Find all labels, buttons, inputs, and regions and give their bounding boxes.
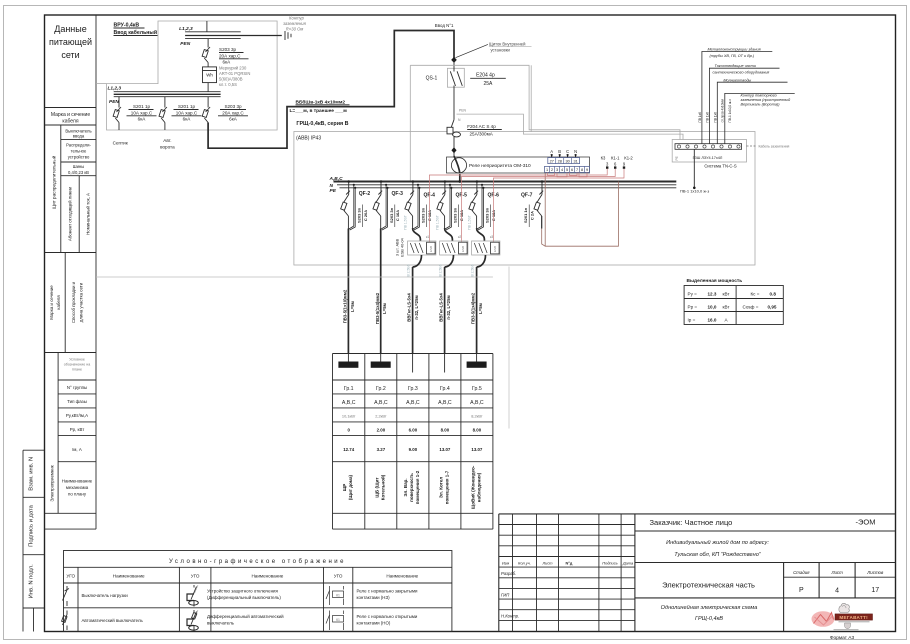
svg-text:Электроприемник: Электроприемник <box>50 465 55 501</box>
svg-text:N: N <box>574 149 577 154</box>
svg-text:Номинальный ток, А: Номинальный ток, А <box>86 193 91 235</box>
svg-text:Кол.уч.: Кол.уч. <box>518 561 531 566</box>
svg-text:помещения 1-7: помещения 1-7 <box>444 470 449 504</box>
breaker QF-6 <box>469 180 499 230</box>
legend symbol: relay NO contact <box>326 611 418 631</box>
svg-text:по плану: по плану <box>68 492 87 497</box>
svg-text:ESB: ESB <box>461 246 465 252</box>
svg-text:ЩР: ЩР <box>342 484 347 492</box>
svg-text:10А хар.С: 10А хар.С <box>176 110 198 115</box>
table row: load names (rotated) <box>342 465 481 509</box>
svg-text:Меркурий 230: Меркурий 230 <box>219 66 247 71</box>
svg-text:Марка и сечение: Марка и сечение <box>51 112 90 118</box>
allotted power table <box>684 278 783 325</box>
contactor K1 (3 шт. АВВ ESB 40-04) <box>396 215 436 276</box>
svg-text:ПВ 1х6: ПВ 1х6 <box>706 112 710 123</box>
svg-text:R<30 Ом: R<30 Ом <box>286 27 304 32</box>
svg-text:С 20А: С 20А <box>363 210 368 221</box>
terminal strip A B C N (27 28 30 31) <box>548 149 580 164</box>
svg-text:8,2кВт: 8,2кВт <box>471 414 483 419</box>
svg-text:N° группы: N° группы <box>67 385 87 390</box>
svg-text:Iм, А: Iм, А <box>72 447 82 452</box>
svg-text:S203 3п: S203 3п <box>485 207 490 223</box>
svg-text:Токоотводящие части: Токоотводящие части <box>715 64 757 68</box>
svg-text:L=5м: L=5м <box>478 303 483 314</box>
svg-text:17: 17 <box>871 587 879 594</box>
svg-text:PE: PE <box>330 188 337 194</box>
svg-text:Лист: Лист <box>830 570 843 575</box>
svg-text:А,В,С: А,В,С <box>406 400 420 406</box>
outgoing cable Гр.3 <box>407 267 419 354</box>
svg-text:QF-7: QF-7 <box>521 193 533 199</box>
svg-text:Эл. Котел: Эл. Котел <box>438 477 443 499</box>
svg-text:ПВ3-5(1х4)мм2: ПВ3-5(1х4)мм2 <box>471 292 476 324</box>
svg-text:25А: 25А <box>484 81 494 87</box>
svg-text:ВВГнг-LS-5х4: ВВГнг-LS-5х4 <box>407 293 412 322</box>
relay ОМ-310 box <box>447 156 590 182</box>
breaker QF-7 <box>521 180 543 228</box>
svg-text:6кА: 6кА <box>138 117 147 122</box>
svg-text:кабеля: кабеля <box>62 119 78 125</box>
svg-text:20А хар.С: 20А хар.С <box>222 110 244 115</box>
svg-text:ПВ 1,5SТ: ПВ 1,5SТ <box>468 215 472 230</box>
wire QF-7 to relay coils loop <box>542 173 619 247</box>
svg-text:Взам. инв. N: Взам. инв. N <box>28 457 34 491</box>
logo МЕГАВАТТ <box>812 603 873 629</box>
svg-text:Подпись: Подпись <box>602 561 617 566</box>
red control wiring <box>429 169 624 242</box>
svg-text:Металлоконструкции здания: Металлоконструкции здания <box>708 48 761 52</box>
legend symbol: diff automatic breaker <box>187 610 284 631</box>
svg-text:5(60)А/380В: 5(60)А/380В <box>219 77 243 82</box>
svg-text:8.00: 8.00 <box>473 428 482 433</box>
switch QS-1 E204 <box>426 60 506 120</box>
svg-text:0,4/0,23 кВ: 0,4/0,23 кВ <box>68 170 89 175</box>
svg-text:Дата: Дата <box>622 561 634 566</box>
svg-text:F204 AC S 4р: F204 AC S 4р <box>467 124 496 129</box>
svg-text:6.00: 6.00 <box>409 428 418 433</box>
svg-text:Ввод кабельный: Ввод кабельный <box>114 29 158 36</box>
junction node <box>451 57 457 63</box>
svg-text:(Щит дома): (Щит дома) <box>348 474 353 500</box>
svg-text:Изм: Изм <box>502 561 510 566</box>
svg-text:30: 30 <box>565 159 569 163</box>
svg-text:поверхность: поверхность <box>409 473 414 502</box>
svg-text:ART-01 PQRSIN: ART-01 PQRSIN <box>219 71 250 76</box>
svg-text:кВт: кВт <box>723 291 731 296</box>
svg-text:Ру,кВт/Iм,А: Ру,кВт/Iм,А <box>66 413 88 418</box>
svg-text:В: В <box>558 149 561 154</box>
terminal strip 1-9 <box>545 166 590 172</box>
svg-text:31: 31 <box>573 159 577 163</box>
svg-text:ГРЩ-0,4кВ, серия В: ГРЩ-0,4кВ, серия В <box>296 121 348 127</box>
bonding labels <box>680 48 791 194</box>
gray N/PE routing wires <box>410 65 683 181</box>
svg-text:0,95: 0,95 <box>768 304 777 309</box>
legend table УГО <box>64 551 452 632</box>
svg-text:Кабель заземления: Кабель заземления <box>759 145 790 149</box>
svg-text:плане: плане <box>72 368 82 372</box>
main bus A,B,C / N / PE <box>329 176 696 194</box>
svg-text:Распредели-: Распредели- <box>66 143 91 148</box>
svg-text:сети: сети <box>61 50 79 60</box>
svg-text:Ру =: Ру = <box>688 291 698 296</box>
svg-text:16.0: 16.0 <box>708 317 717 322</box>
svg-text:5: 5 <box>566 168 568 172</box>
svg-text:Гр.3: Гр.3 <box>408 386 418 392</box>
svg-text:заземления: заземления <box>282 21 307 26</box>
leader кабель заземления <box>747 145 790 149</box>
svg-text:(Дифференциальный выключатель): (Дифференциальный выключатель) <box>207 595 281 600</box>
svg-text:Реле неприоритета ОМ-310: Реле неприоритета ОМ-310 <box>469 163 531 169</box>
svg-text:Наименование: Наименование <box>386 574 418 579</box>
junction node <box>451 147 456 153</box>
svg-text:к3: к3 <box>490 235 493 239</box>
svg-text:2: 2 <box>551 168 553 172</box>
svg-text:ГРЩ-0,4кВ: ГРЩ-0,4кВ <box>695 616 723 622</box>
svg-text:Кс =: Кс = <box>751 291 760 296</box>
svg-text:Септик: Септик <box>113 141 129 146</box>
svg-text:Молниеотводы: Молниеотводы <box>723 78 751 82</box>
misc reference lines <box>96 267 509 429</box>
sidebar rows: cable section <box>49 253 84 353</box>
svg-text:В 2,5Бб: В 2,5Бб <box>406 264 410 276</box>
label Ввод N1 <box>435 23 454 28</box>
svg-text:PEN: PEN <box>109 99 119 105</box>
svg-text:-ЭОМ: -ЭОМ <box>856 518 876 527</box>
svg-text:кВт: кВт <box>723 304 731 309</box>
svg-text:Эл. Вар.: Эл. Вар. <box>403 478 408 496</box>
svg-text:Заказчик: Частное лицо: Заказчик: Частное лицо <box>650 518 733 527</box>
svg-text:L1,2,3: L1,2,3 <box>179 26 193 32</box>
svg-text:1: 1 <box>546 168 548 172</box>
svg-text:Листов: Листов <box>866 570 884 575</box>
svg-text:РЕ: РЕ <box>675 156 679 160</box>
svg-text:Ввод N°1: Ввод N°1 <box>435 23 454 28</box>
legend symbol: RCD <box>187 585 281 607</box>
table row: Iм А <box>343 447 483 452</box>
contactor K2 <box>436 215 468 276</box>
svg-text:к1: к1 <box>426 235 429 239</box>
svg-text:ЩБ (Щит: ЩБ (Щит <box>374 477 379 498</box>
svg-text:8: 8 <box>581 168 583 172</box>
svg-text:Реле с нормально открытыми: Реле с нормально открытыми <box>357 614 418 619</box>
svg-text:Реле с нормально закрытыми: Реле с нормально закрытыми <box>357 589 419 594</box>
breaker S201 1p 10A (Септик) <box>113 97 157 146</box>
svg-text:помещения 1-2: помещения 1-2 <box>415 470 420 504</box>
svg-text:Индивидуальный жилой дом по ад: Индивидуальный жилой дом по адресу: <box>666 539 769 546</box>
svg-text:QF-3: QF-3 <box>392 191 404 197</box>
GRSHCH enclosure box <box>294 132 755 266</box>
svg-text:13.07: 13.07 <box>471 447 483 452</box>
svg-text:Автоматический выключатель: Автоматический выключатель <box>82 618 144 623</box>
sidebar rows: Щит распределительный block <box>51 125 97 253</box>
svg-text:Марка и сечение: Марка и сечение <box>49 285 54 320</box>
svg-text:Рр, кВт: Рр, кВт <box>70 427 85 432</box>
svg-text:Данные: Данные <box>54 24 87 34</box>
left stamp strip <box>23 450 45 631</box>
svg-text:Авт.: Авт. <box>163 138 171 143</box>
svg-text:п-32, L=25м: п-32, L=25м <box>446 295 451 319</box>
svg-text:сп.пров 4х10мм: сп.пров 4х10мм <box>721 99 725 122</box>
svg-text:S203 3п: S203 3п <box>421 207 426 223</box>
svg-text:(АВВ) IP43: (АВВ) IP43 <box>296 136 321 142</box>
breaker QF-5 <box>437 180 467 230</box>
svg-text:контактами (НО): контактами (НО) <box>357 621 391 626</box>
svg-text:ПВ 1х6: ПВ 1х6 <box>713 112 717 123</box>
svg-text:2.00: 2.00 <box>377 428 386 433</box>
outgoing cable Гр.1 <box>343 229 355 354</box>
svg-text:В 2,5Бб: В 2,5Бб <box>470 264 474 276</box>
svg-text:Е204 4р: Е204 4р <box>476 73 495 79</box>
svg-text:ESB: ESB <box>429 246 433 252</box>
svg-text:ВВГнг-LS-5х4: ВВГнг-LS-5х4 <box>439 293 444 322</box>
feeder cable wire VRU to GRSHCH <box>208 31 454 149</box>
outgoing cable Гр.2 <box>375 229 387 354</box>
svg-text:25А/300мА: 25А/300мА <box>470 131 494 136</box>
svg-text:устройство: устройство <box>68 155 90 160</box>
svg-text:К1-2: К1-2 <box>624 156 633 161</box>
svg-text:Стадия: Стадия <box>793 570 810 575</box>
svg-text:ЩоВиК (Жонвидео-: ЩоВиК (Жонвидео- <box>470 465 475 509</box>
svg-text:Тульская обл, КП “Рождествено”: Тульская обл, КП “Рождествено” <box>674 552 762 558</box>
svg-text:N: N <box>330 183 334 189</box>
svg-text:обозначение на: обозначение на <box>64 363 90 367</box>
svg-text:Формат А3: Формат А3 <box>830 635 855 641</box>
svg-text:ворота: ворота <box>160 145 175 150</box>
svg-text:(трубы ХВ, ГВ, ОТ и Вр.): (трубы ХВ, ГВ, ОТ и Вр.) <box>710 54 755 58</box>
svg-text:N°д: N°д <box>566 561 573 566</box>
svg-text:L=5м: L=5м <box>382 303 387 314</box>
svg-text:МЕГАВАТТ!: МЕГАВАТТ! <box>839 615 868 620</box>
svg-text:К3: К3 <box>601 156 606 161</box>
svg-text:тельное: тельное <box>71 149 87 154</box>
svg-text:3: 3 <box>556 168 558 172</box>
sheet format label <box>830 635 855 641</box>
svg-text:Наименование: Наименование <box>113 574 145 579</box>
cable label ВБбШв <box>290 99 350 115</box>
svg-text:9: 9 <box>586 168 588 172</box>
svg-text:6кА: 6кА <box>183 117 192 122</box>
svg-text:УГО: УГО <box>66 574 75 579</box>
svg-text:Н.Контр.: Н.Контр. <box>501 614 519 619</box>
svg-text:Абонент отходящей линии: Абонент отходящей линии <box>68 186 73 241</box>
svg-text:Устройство защитного отключени: Устройство защитного отключения <box>207 589 278 594</box>
svg-text:К1: К1 <box>336 593 340 597</box>
table row: Рр кВт <box>347 428 481 433</box>
VRU enclosure box <box>96 21 277 130</box>
svg-text:Наименование: Наименование <box>62 479 93 484</box>
svg-text:L=5м: L=5м <box>350 301 355 312</box>
svg-text:Гр.2: Гр.2 <box>376 386 386 392</box>
svg-text:Щиток Внутренней: Щиток Внутренней <box>489 42 526 47</box>
svg-text:В 2,5Бб: В 2,5Бб <box>438 264 442 276</box>
table row: installed power <box>342 414 483 419</box>
svg-text:УГО: УГО <box>191 574 200 579</box>
contactor K3 <box>468 215 500 276</box>
svg-text:Котельной): Котельной) <box>379 474 385 500</box>
svg-text:PEN: PEN <box>180 41 190 47</box>
svg-text:Wh: Wh <box>206 73 213 78</box>
svg-text:6: 6 <box>571 168 573 172</box>
svg-text:L=___м, в траншее ___м: L=___м, в траншее ___м <box>290 108 348 114</box>
svg-text:Cosф =: Cosф = <box>743 304 759 309</box>
svg-text:10,1кВт: 10,1кВт <box>342 414 356 419</box>
breaker S203 3p 20A (output to GRSHCH) <box>202 97 248 123</box>
svg-text:S203 3р: S203 3р <box>224 104 242 109</box>
svg-text:20А хар.С: 20А хар.С <box>219 53 241 58</box>
svg-text:27: 27 <box>550 159 554 163</box>
svg-text:к2: к2 <box>458 235 461 239</box>
VRU top busbar L1,2,3 / PEN <box>179 26 282 47</box>
svg-text:Выделенная мощность: Выделенная мощность <box>687 278 743 284</box>
svg-text:S203 3р: S203 3р <box>219 47 237 52</box>
sidebar rows: электроприемник block <box>50 353 97 514</box>
svg-text:Подпись и дата: Подпись и дата <box>28 504 34 546</box>
VRU cabinet label <box>114 23 158 37</box>
meter Wh Меркурий 230 <box>203 66 251 92</box>
svg-text:3 шт. АВВ: 3 шт. АВВ <box>396 238 400 256</box>
svg-text:ПВ3-5(1х4)мм2: ПВ3-5(1х4)мм2 <box>375 292 380 324</box>
svg-text:Условно-графическое отображени: Условно-графическое отображение <box>169 559 346 565</box>
svg-text:S201 1п: S201 1п <box>523 207 528 223</box>
breaker QF-2 <box>341 180 371 230</box>
svg-text:длина участка сети: длина участка сети <box>79 282 84 322</box>
svg-text:ПВ-1 1х10,0 ж-з: ПВ-1 1х10,0 ж-з <box>680 189 709 194</box>
RCD F204 <box>447 120 502 157</box>
svg-text:ПВ 1,5SТ: ПВ 1,5SТ <box>404 215 408 230</box>
svg-text:выключатель: выключатель <box>207 621 235 626</box>
svg-text:ESB 40-04: ESB 40-04 <box>400 238 404 256</box>
outgoing cable Гр.5 <box>471 267 483 354</box>
svg-text:Р: Р <box>799 587 804 594</box>
svg-text:7: 7 <box>576 168 578 172</box>
svg-text:Система ТN-C-S: Система ТN-C-S <box>704 164 736 169</box>
svg-text:кабеля: кабеля <box>56 295 61 310</box>
svg-text:ПВ3-5(1х10)мм2: ПВ3-5(1х10)мм2 <box>343 289 348 323</box>
legend symbol: relay NC contact <box>326 586 418 605</box>
breaker QF-4 <box>405 180 435 230</box>
svg-text:6кА: 6кА <box>229 117 238 122</box>
svg-text:Однолинейная электрическая схе: Однолинейная электрическая схема <box>661 604 758 611</box>
svg-text:QS-1: QS-1 <box>426 76 438 82</box>
svg-text:Гр.5: Гр.5 <box>472 386 482 392</box>
svg-text:УГО: УГО <box>334 574 343 579</box>
svg-text:12.74: 12.74 <box>343 447 355 452</box>
svg-text:Электротехническая часть: Электротехническая часть <box>662 581 755 590</box>
svg-text:28: 28 <box>558 159 562 163</box>
outgoing cable Гр.4 <box>439 267 451 354</box>
svg-text:С 2А: С 2А <box>530 211 535 220</box>
svg-text:Контур повторного: Контур повторного <box>741 94 777 98</box>
svg-text:Iр =: Iр = <box>688 317 696 322</box>
VRU lower busbar L1,2,3 / PEN <box>108 86 221 106</box>
svg-text:А: А <box>550 149 553 154</box>
svg-text:заземления (пристроенный: заземления (пристроенный <box>740 98 792 102</box>
svg-text:К1-1: К1-1 <box>611 156 620 161</box>
svg-text:4: 4 <box>561 168 563 172</box>
node labels К3 К1-1 К1-2 <box>601 156 634 169</box>
svg-text:ввода: ввода <box>73 134 85 139</box>
svg-text:механизма: механизма <box>66 485 89 490</box>
svg-text:А,В,С: А,В,С <box>342 400 356 406</box>
svg-text:Контур: Контур <box>289 16 305 21</box>
svg-text:3.27: 3.27 <box>377 447 386 452</box>
svg-text:ГЗШ ЛЗУ4.17х4Л: ГЗШ ЛЗУ4.17х4Л <box>693 156 723 160</box>
svg-text:Щит распределительный: Щит распределительный <box>51 155 57 209</box>
svg-text:ГИП: ГИП <box>501 592 510 597</box>
svg-text:6кА: 6кА <box>223 60 232 65</box>
svg-text:Выключатель нагрузки: Выключатель нагрузки <box>82 593 129 598</box>
svg-text:п-32, L=25м: п-32, L=25м <box>414 295 419 319</box>
load group table <box>333 354 493 530</box>
breaker S201 1p 10A (Авт. ворота) <box>159 97 201 150</box>
svg-text:установки: установки <box>491 48 511 53</box>
svg-text:10,0: 10,0 <box>708 304 717 309</box>
table row: group numbers <box>344 386 482 392</box>
breaker QF-3 <box>373 180 403 230</box>
svg-text:L1,2,3: L1,2,3 <box>108 86 122 92</box>
svg-text:Вертикаль (Ворота)): Вертикаль (Ворота)) <box>741 103 781 107</box>
svg-text:13.07: 13.07 <box>439 447 451 452</box>
svg-text:ПВ-1 1х10,0 ж-з: ПВ-1 1х10,0 ж-з <box>728 99 732 123</box>
svg-text:0.8: 0.8 <box>770 291 777 296</box>
svg-text:S203 3п: S203 3п <box>357 207 362 223</box>
svg-text:9.00: 9.00 <box>409 447 418 452</box>
table row: phases <box>342 400 484 406</box>
PE bonding wires from ГЗШ <box>694 52 794 188</box>
svg-text:Рр =: Рр = <box>688 304 698 309</box>
leader Щиток внутренней установки <box>456 42 532 58</box>
svg-text:контактами (НЗ): контактами (НЗ) <box>357 595 391 600</box>
svg-text:10А хар.С: 10А хар.С <box>131 110 153 115</box>
svg-text:Условное: Условное <box>69 358 85 362</box>
svg-text:А,В,С: А,В,С <box>470 400 484 406</box>
svg-text:QF-2: QF-2 <box>359 191 371 197</box>
legend symbol: automatic breaker <box>62 611 144 631</box>
load symbols row <box>338 354 486 373</box>
svg-text:А,В,С: А,В,С <box>374 400 388 406</box>
svg-text:12.3: 12.3 <box>708 291 717 296</box>
svg-text:8.00: 8.00 <box>441 428 450 433</box>
svg-text:Гр.1: Гр.1 <box>344 386 354 392</box>
svg-text:А,В,С: А,В,С <box>438 400 452 406</box>
svg-text:Шины: Шины <box>73 164 85 169</box>
title block texts <box>501 518 884 623</box>
VRU incoming feeder wire <box>206 21 208 32</box>
svg-text:Дифференциальный автоматически: Дифференциальный автоматический <box>207 614 284 619</box>
svg-text:Тип фазы: Тип фазы <box>67 399 87 404</box>
svg-text:ПВ 1,5SТ: ПВ 1,5SТ <box>436 215 440 230</box>
svg-text:Лист: Лист <box>541 561 553 566</box>
title block grid <box>499 514 896 632</box>
svg-text:сантехнического оборудования: сантехнического оборудования <box>713 70 770 74</box>
svg-text:Наименование: Наименование <box>251 574 283 579</box>
svg-text:К1: К1 <box>336 618 340 622</box>
svg-text:Инв. N подл.: Инв. N подл. <box>28 564 34 598</box>
svg-text:С 16А: С 16А <box>395 210 400 221</box>
svg-text:S203 3п: S203 3п <box>453 207 458 223</box>
svg-text:ПВ 1х6: ПВ 1х6 <box>698 112 702 123</box>
svg-text:Разраб.: Разраб. <box>501 571 516 576</box>
legend symbol: load switch <box>63 586 129 606</box>
svg-text:4: 4 <box>835 588 839 595</box>
svg-text:наблюдения): наблюдения) <box>475 472 481 502</box>
breaker S203 3p 20A (VRU input) <box>202 39 248 67</box>
svg-text:S203 3п: S203 3п <box>389 207 394 223</box>
svg-text:кл.т. 0,5S: кл.т. 0,5S <box>219 82 237 87</box>
svg-text:S201 1р: S201 1р <box>133 104 151 109</box>
